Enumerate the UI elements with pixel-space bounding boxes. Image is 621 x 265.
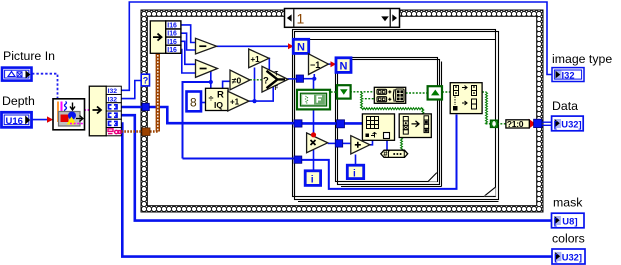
while loop right tunnel (Data out) <box>534 119 542 127</box>
svg-text:U8: U8 <box>562 215 574 226</box>
svg-text:Depth: Depth <box>2 94 35 108</box>
wire: shift register to bundle node green <box>350 91 374 93</box>
subtract 2 <box>196 60 218 78</box>
not equal to 0 <box>230 70 250 90</box>
svg-text:+1: +1 <box>230 98 240 107</box>
wire: +1 upper to select top <box>268 58 270 70</box>
wire: unbundle2 e2 to ? terminal <box>121 81 141 99</box>
wire: tunnel to add node <box>342 142 351 144</box>
svg-text:mask: mask <box>553 196 583 210</box>
decrement -1 <box>309 54 329 75</box>
while loop <box>141 10 543 212</box>
add node <box>351 136 370 154</box>
indicator: Data U32 array <box>552 116 584 131</box>
for loop 2 frame <box>295 40 496 197</box>
boolean False constant <box>297 90 330 110</box>
wire: colors (unbundle2 e5 down and right to U32) <box>121 124 552 257</box>
boolean array to number node <box>381 150 408 159</box>
svg-text:I16: I16 <box>167 39 177 46</box>
wire: i1 up to multiply <box>313 150 315 171</box>
index array node <box>362 114 394 140</box>
wire: unbundle1 el3 to subtract2 top <box>181 41 196 64</box>
wire: subtract1 out to N1 <box>217 43 294 49</box>
wire: bool tunnel to select 1:0 <box>497 123 506 125</box>
wire: icon pink output to unbundle2 <box>84 109 90 111</box>
wire: select out to loop2 tunnel <box>288 78 298 80</box>
subVI icon: picture to pixmap <box>53 99 85 130</box>
svg-text:T: T <box>275 72 279 78</box>
select node <box>262 66 288 92</box>
wire: unbundle2 e3 to left tunnel <box>121 106 143 109</box>
wire: unbundle1 el1 to subtract1 top <box>181 25 196 43</box>
multiply node <box>307 132 328 153</box>
unbundle1: I16 x4 <box>150 21 181 54</box>
svg-text:8: 8 <box>190 96 197 110</box>
case dog-ear bottom-right <box>484 187 496 196</box>
reshape array node <box>399 114 431 138</box>
wire: 8 to QR <box>201 102 206 104</box>
svg-text:N: N <box>297 42 305 54</box>
svg-text:I32: I32 <box>108 96 118 103</box>
increment +1 upper <box>249 49 269 68</box>
wire: bundle second green input <box>362 98 375 100</box>
svg-text:i: i <box>353 168 356 179</box>
svg-text:[: [ <box>554 118 557 129</box>
while loop tunnel: blue (pixmap data) <box>142 103 149 110</box>
svg-text:Picture In: Picture In <box>3 49 55 63</box>
svg-text:≠0: ≠0 <box>232 76 242 86</box>
svg-text:I16: I16 <box>167 47 177 54</box>
control terminal: Picture In <box>2 68 32 81</box>
wire: Depth U16 to icon <box>32 116 54 122</box>
control terminal: Depth U16 <box>2 112 32 127</box>
wire: data wire inside loop2 to loop3 tunnel <box>301 122 337 125</box>
select ?1:0 node <box>506 119 529 129</box>
svg-text:?: ? <box>143 76 149 86</box>
wire: bundle to right shift register <box>406 92 428 94</box>
svg-text:[: [ <box>554 215 557 226</box>
iteration terminal i1 <box>305 171 320 186</box>
wire: loop3 tunnel to index node <box>344 122 364 125</box>
wire: -1 out to N2 <box>328 61 336 67</box>
while loop tunnel: brown (bounds cluster) <box>142 128 150 136</box>
wire: image type (unbundle2 e1 up over loop to I32) <box>121 2 552 90</box>
indicator: mask U8 array <box>552 213 585 228</box>
svg-text:I16: I16 <box>167 31 177 38</box>
wire: unbundle1 el2 to subtract1 bottom <box>181 33 196 50</box>
svg-text:−1: −1 <box>310 60 320 70</box>
svg-text:÷: ÷ <box>209 94 214 104</box>
case selector label <box>285 9 400 28</box>
wire: build array out green zigzag to bool tunnel <box>482 91 487 93</box>
svg-text:1: 1 <box>297 11 305 27</box>
shift register left (down arrow) <box>337 85 351 98</box>
wire: unbundle1 el4 to subtract2 bottom <box>181 50 196 74</box>
wire: index node port down to array size node <box>386 140 388 151</box>
svg-text:Data: Data <box>552 99 578 113</box>
boolean tunnel on case border <box>491 120 498 127</box>
svg-text:IQ: IQ <box>214 100 223 110</box>
wire: tunnel to -1 and down to multiply <box>303 74 317 136</box>
constant 8 <box>187 92 202 112</box>
svg-text:[: [ <box>554 251 557 262</box>
unbundle2: pixmap cluster <box>89 86 121 136</box>
wire: shift register to build array green <box>442 91 450 93</box>
loop2 tunnel y123 <box>294 120 302 127</box>
bundle node <box>374 87 405 103</box>
loop2 tunnel: select out <box>296 75 303 82</box>
wire: green zigzag down to array size <box>361 92 363 109</box>
svg-text:F: F <box>275 86 279 92</box>
wire: tunnel out to long data wire y123 <box>149 107 296 123</box>
svg-text:I32: I32 <box>108 88 118 95</box>
case selector ? terminal on loop border <box>141 74 149 86</box>
indicator: colors U32 array <box>552 249 585 264</box>
svg-text:image type: image type <box>552 52 612 66</box>
wire: cluster brown e6 to tunnel <box>121 130 143 132</box>
loop3 tunnel upper (data in) <box>337 120 345 128</box>
svg-text:#[: #[ <box>383 150 390 159</box>
wire: i2 up to add <box>355 155 357 166</box>
svg-text:U32]: U32] <box>561 118 581 129</box>
wire: ?1:0 out red coercion to loop tunnel <box>529 119 536 129</box>
loop3 dog-ear bottom-right <box>428 172 437 181</box>
svg-text:i: i <box>311 174 314 186</box>
wire: brown cluster ladder up to unbundle1 <box>150 54 158 132</box>
N2 count terminal <box>336 58 351 73</box>
wire: W inside loop2 down under loop3 up to build array <box>301 115 457 189</box>
svg-text:I16: I16 <box>167 23 177 30</box>
N1 count terminal <box>293 39 308 53</box>
wire: reshape node down green to array size node <box>401 138 403 151</box>
wire: mask (unbundle2 e4 down and right to U8) <box>121 115 551 220</box>
wire: +1 lower out with junction to select and +1 upper <box>249 68 273 104</box>
svg-text:N: N <box>340 60 348 72</box>
wire: not-equal-0 to select green <box>250 79 263 81</box>
wire: Data double line to U32 <box>542 122 552 125</box>
svg-text:colors: colors <box>552 232 585 246</box>
svg-text:+1: +1 <box>251 55 261 64</box>
svg-text:?1:0: ?1:0 <box>507 119 524 129</box>
svg-text:?: ? <box>263 76 269 87</box>
subtract 1 <box>196 38 217 54</box>
svg-text:U32]: U32] <box>562 251 582 262</box>
iteration terminal i2 <box>347 165 363 179</box>
wire: W line right to loop2 lower tunnel <box>183 158 296 160</box>
svg-text:I32: I32 <box>562 69 575 80</box>
wire: add out up into index node bottom <box>370 140 373 145</box>
shift register right (up arrow) <box>428 86 442 99</box>
wire: subtract2 branch down to W and QR <box>183 72 232 159</box>
loop3 tunnel lower (multiply in) <box>335 140 342 147</box>
wire: boolean F to shift register <box>327 91 337 93</box>
loop2 tunnel y159 <box>294 156 302 163</box>
svg-text:]: ] <box>575 215 578 226</box>
quotient and remainder node <box>206 88 229 110</box>
case structure frames <box>293 30 499 202</box>
wire: Picture In dashed picture wire <box>32 74 58 99</box>
svg-text:U16: U16 <box>6 116 23 127</box>
svg-text:]: ] <box>403 150 406 159</box>
for loop 3 frames <box>336 58 442 187</box>
indicator: image type I32 <box>552 68 584 82</box>
wire: multiply out to loop3 tunnel <box>328 142 336 144</box>
increment +1 lower <box>228 91 249 111</box>
build array node <box>450 83 482 114</box>
